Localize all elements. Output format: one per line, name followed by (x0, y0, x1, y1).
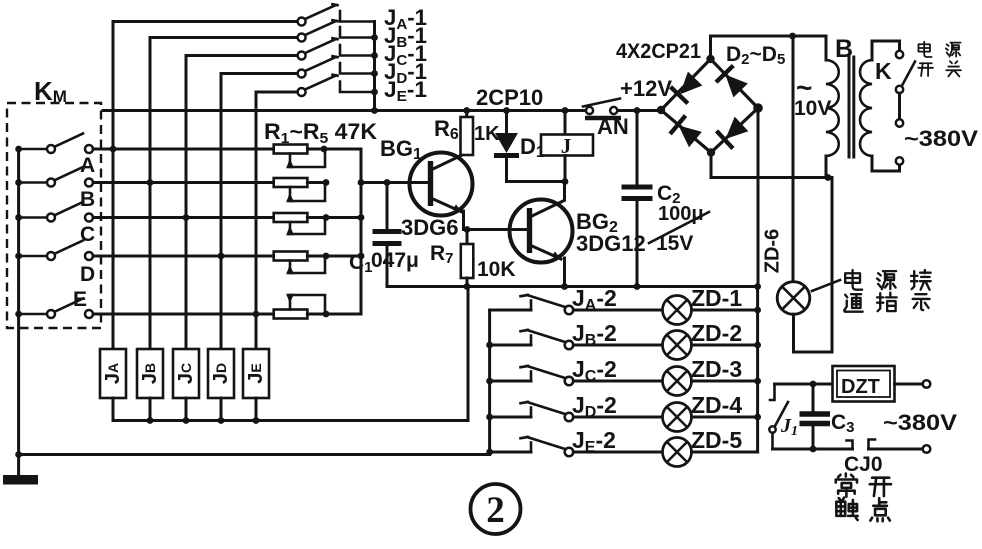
node R3/common bus (358, 214, 365, 221)
wire base row to BG1 (361, 181, 428, 184)
wire ZD-3 to bus (692, 380, 758, 383)
wire bridge minus drop to lamp bus (757, 108, 760, 287)
wire top row E (256, 91, 298, 94)
node D1 top (503, 107, 510, 114)
wire bus 1 (112, 22, 115, 350)
svg-text:JB: JB (139, 363, 161, 384)
diode D3 (top-right arm) (716, 66, 749, 99)
svg-text:2: 2 (486, 490, 505, 531)
wire bridge AC top to transformer (711, 36, 827, 59)
wire coil JC bottom lead (185, 398, 188, 421)
wire top row A (113, 20, 298, 23)
wire bus 2 (149, 38, 152, 350)
node J top (562, 107, 569, 114)
wire R1 to common (324, 148, 361, 151)
node bus374/row D (371, 70, 378, 77)
node R4 right (323, 253, 330, 260)
label 常开 (836, 474, 891, 497)
node coil bus JE (253, 417, 260, 424)
node R2 right (323, 179, 330, 186)
wire D1 bottom lead (505, 157, 508, 182)
svg-text:C: C (80, 223, 95, 246)
svg-text:B: B (80, 188, 95, 211)
node bridge left vertex (657, 106, 665, 114)
wire R5 to common (326, 313, 361, 316)
KM contact C (19, 202, 274, 222)
switch JD-1 (298, 56, 375, 77)
wire D1 to BG2 collector node (507, 180, 566, 183)
node ZD-6 tap top (789, 33, 796, 40)
relay coil JA (100, 349, 126, 398)
switch JC-1 (298, 38, 375, 59)
wire BG2 emitter lead (563, 258, 566, 287)
svg-text:DZT: DZT (841, 376, 880, 398)
wire ground rail (387, 285, 758, 288)
polarity slash (649, 212, 709, 243)
node bus374/row C (371, 52, 378, 59)
node: bus/bottom wire (15, 451, 22, 458)
svg-text:15V: 15V (656, 232, 693, 255)
wire DZT right lead (895, 383, 923, 386)
label 电源开关 (918, 42, 961, 77)
wire resistor common bus (360, 149, 363, 314)
KM contact B (19, 167, 274, 187)
node bridge bottom vertex (707, 148, 715, 156)
node R1 right (321, 146, 328, 153)
wire +12V rail left span (103, 109, 586, 112)
node R5 right (323, 311, 330, 318)
node ZD-4/bus (754, 414, 761, 421)
svg-text:10V: 10V (794, 97, 831, 120)
wire bottom return (19, 453, 490, 456)
svg-text:JD: JD (210, 363, 232, 384)
node ZD-3/bus (754, 378, 761, 385)
wire ZD-5 to bus (692, 451, 758, 454)
wire R7 bottom lead (466, 278, 469, 287)
terminal DZT right (923, 380, 931, 388)
node bus2/row B (147, 179, 154, 186)
row JD-2 (490, 402, 663, 421)
capacitor C1 (373, 232, 402, 244)
node: bus/row A (15, 146, 22, 153)
lamp ZD-2 (663, 331, 692, 360)
resistor R5 (274, 295, 325, 319)
diode D1 (494, 133, 519, 156)
relay coil JD (208, 349, 234, 398)
node bus4/row D (218, 253, 225, 260)
wire J1/C3 bottom (773, 448, 853, 451)
wire bridge AC bottom to transformer (711, 153, 832, 178)
svg-text:ZD-4: ZD-4 (691, 392, 742, 418)
wire DZT feed (775, 383, 833, 386)
wire coil JB bottom lead (149, 398, 152, 421)
wire C2 bottom lead (636, 201, 639, 287)
wire D1 top lead (505, 111, 508, 134)
svg-text:4X2CP21: 4X2CP21 (616, 40, 701, 63)
lamp ZD-6 (777, 282, 810, 315)
wire BG1 emitter drop (464, 211, 528, 230)
node R7 / rail / coil return (464, 283, 471, 290)
node bus5/row E (253, 311, 260, 318)
capacitor C2 (622, 187, 653, 199)
wire R4 to common (326, 255, 361, 258)
svg-text:ZD-3: ZD-3 (691, 356, 742, 382)
resistor R1 (274, 145, 325, 168)
svg-text:2CP10: 2CP10 (476, 85, 543, 110)
leader line indicator label (812, 280, 840, 291)
wire R6 top lead (465, 111, 468, 118)
switch K (896, 51, 915, 165)
KM contact D (19, 241, 274, 261)
wire J bottom lead (564, 156, 567, 182)
KM dashed enclosure (7, 103, 101, 328)
svg-text:K: K (875, 58, 892, 84)
node transformer secondary bottom (825, 174, 832, 181)
node bus374/+12V rail (371, 107, 378, 114)
svg-text:10K: 10K (477, 258, 516, 281)
wire ZD-1 to bus (692, 309, 758, 312)
node bus/JE-2 (486, 449, 493, 456)
wire J top lead (564, 111, 567, 135)
node C2 / rail (634, 283, 641, 290)
resistor R3 (274, 213, 325, 234)
svg-text:D2~D5: D2~D5 (726, 43, 785, 68)
svg-text:100μ: 100μ (658, 203, 704, 225)
node C3 top (810, 381, 817, 388)
wire R3 to common (326, 216, 361, 219)
wire ZD-2 to bus (692, 344, 758, 347)
node bus/JB-2 (486, 342, 493, 349)
node bridge top vertex (706, 55, 714, 63)
row JA-2 (490, 295, 663, 314)
transformer core (849, 57, 854, 157)
switch JA-1 (298, 4, 375, 25)
lamp ZD-5 (663, 438, 692, 467)
wire C1 top lead (386, 183, 389, 230)
svg-text:ZD-2: ZD-2 (691, 320, 742, 346)
node: bus/row C (15, 214, 22, 221)
resistor R6 (461, 117, 474, 155)
KM contact A (19, 134, 274, 154)
switch J1 (769, 384, 788, 449)
node R7 top / BG2 base (464, 226, 471, 233)
relay coil JC (173, 349, 199, 398)
lamp ZD-3 (663, 367, 692, 396)
svg-text:JC: JC (175, 363, 197, 384)
node BG2 collector (562, 178, 569, 185)
KM common left bus wire (17, 149, 20, 455)
switch JE-1 (298, 75, 375, 96)
ground (3, 455, 38, 485)
switch AN (583, 99, 621, 119)
KM contact E (19, 299, 274, 319)
row JC-2 (490, 366, 663, 385)
node bridge right vertex (753, 103, 763, 113)
diode D2 (top-left arm) (671, 70, 704, 103)
transistor BG2 (510, 200, 573, 263)
svg-text:ZD-6: ZD-6 (761, 229, 783, 273)
node C2 top (634, 107, 641, 114)
svg-text:AN: AN (597, 114, 629, 139)
wire ZD-6 return loop (794, 178, 833, 353)
row JB-2 (490, 330, 663, 349)
resistor R2 (274, 178, 325, 201)
relay coil J (541, 135, 593, 156)
node coil bus JB (147, 417, 154, 424)
lamp ZD-1 (663, 296, 692, 325)
resistor R7 (461, 244, 474, 278)
svg-text:3DG12: 3DG12 (576, 231, 646, 256)
wire C2 top lead (636, 111, 639, 186)
node ZD-1/bus (754, 307, 761, 314)
wire top row C (186, 54, 298, 57)
svg-text:D: D (80, 263, 95, 286)
svg-text:+12V: +12V (620, 76, 672, 101)
wire top row D (221, 72, 298, 75)
svg-text:3DG6: 3DG6 (401, 215, 458, 240)
wire contact feed bus (488, 310, 491, 455)
lamp ZD-4 (663, 403, 692, 432)
wire bus 3 (185, 56, 188, 350)
transistor BG1 (410, 153, 473, 216)
wire top row B (150, 36, 298, 39)
box DZT (833, 366, 895, 402)
relay coil JB (137, 349, 163, 398)
capacitor C3 (800, 384, 831, 449)
svg-text:A: A (80, 154, 95, 177)
wire CJ0 to terminal (869, 448, 923, 451)
svg-text:ZD-5: ZD-5 (691, 427, 742, 453)
switch JB-1 (298, 20, 375, 41)
svg-text:047μ: 047μ (371, 249, 419, 272)
wire coil JE bottom lead (255, 398, 258, 421)
transformer secondary winding (826, 36, 839, 178)
wire ZD-4 to bus (692, 416, 758, 419)
svg-text:E: E (73, 288, 87, 311)
label 触点 (836, 498, 889, 522)
svg-text:~380V: ~380V (904, 126, 978, 151)
node C3 bottom (810, 446, 817, 453)
wire coil return bus (113, 287, 468, 421)
node: bus/row D (15, 253, 22, 260)
node R3 right (323, 214, 330, 221)
node bus374/row E (371, 89, 378, 96)
node R6 top (463, 107, 470, 114)
node: bus/row B (15, 179, 22, 186)
svg-text:~380V: ~380V (883, 410, 957, 435)
node C1 tap (384, 179, 391, 186)
node BG2 emitter / rail (561, 283, 568, 290)
transformer primary winding (860, 41, 900, 171)
svg-text:JE: JE (245, 363, 267, 383)
node bus374/row B (371, 34, 378, 41)
node R4/common bus (358, 253, 365, 260)
node bus/JD-2 (486, 414, 493, 421)
wire bus 5 (255, 92, 258, 349)
diode D5 (bottom-left arm) (670, 116, 703, 149)
node bus3/row C (183, 214, 190, 221)
label 电源接通指示 (844, 270, 931, 312)
relay coil JE (243, 349, 269, 398)
terminal bottom right (923, 445, 931, 453)
bridge frame (661, 59, 758, 153)
wire coil JD bottom lead (220, 398, 223, 421)
wire ZD-6 top lead (792, 36, 795, 282)
wire C1 bottom lead (386, 246, 389, 287)
row JE-2 (490, 437, 663, 456)
svg-text:JA: JA (102, 363, 124, 384)
node bus1/row A (110, 146, 117, 153)
mark circled 2 (471, 484, 521, 534)
contact CJ0 (847, 440, 876, 450)
node coil bus JC (183, 417, 190, 424)
node: bus/row E (15, 311, 22, 318)
wire lamp common bus (756, 287, 759, 453)
node common/base row (358, 179, 365, 186)
wire R7 top lead (466, 230, 469, 245)
wire +12V rail right span (618, 109, 662, 112)
wire coil JA bottom lead (112, 398, 115, 421)
resistor R4 (274, 252, 325, 274)
diode D4 (bottom-right arm) (717, 115, 750, 148)
wire bus 4 (220, 74, 223, 350)
node bus/JC-2 (486, 378, 493, 385)
node minus bus / rail (754, 283, 761, 290)
svg-text:ZD-1: ZD-1 (691, 285, 742, 311)
node coil bus JD (218, 417, 225, 424)
wire BG2 collector lead (563, 182, 566, 201)
node ZD-2/bus (754, 342, 761, 349)
svg-text:CJ0: CJ0 (844, 453, 883, 476)
wire contact collector bus to +12V rail (373, 22, 376, 111)
